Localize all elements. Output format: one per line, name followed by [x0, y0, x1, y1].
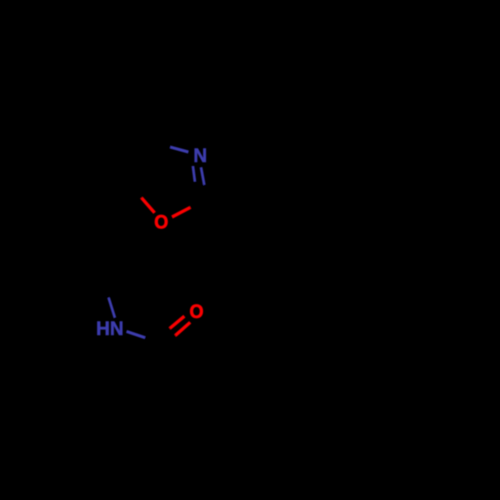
double bond C=O line A (red half near O)	[170, 316, 185, 328]
bond C-NH (black half near carbon)	[103, 279, 109, 298]
bond O1-C2 (black half near C2)	[190, 198, 208, 208]
double bond N3=C2 outer line (blue half)	[201, 167, 204, 185]
bond C4-N3 (black half near C4)	[152, 142, 170, 147]
double bond N3=C2 (black halves near C2)	[195, 182, 197, 194]
svg-text:HN: HN	[96, 319, 123, 340]
bond N-C(=O) (black half near carbonyl C)	[145, 338, 164, 344]
svg-text:O: O	[154, 212, 168, 233]
bond O1-C5 (red half near O1)	[142, 198, 155, 213]
svg-text:N: N	[193, 146, 207, 167]
svg-text:O: O	[190, 302, 204, 323]
bond O1-C2 (red half near O1)	[172, 207, 190, 217]
bond C2-C(aryl) substituent (black, invisible)	[209, 198, 253, 212]
bond C-NH (blue half near amide N)	[109, 298, 115, 318]
double bond C=O line B (red half near O)	[175, 322, 190, 335]
double bond C=O (black halves near carbonyl C)	[158, 328, 170, 338]
bond O1-C5 (black half near C5)	[128, 183, 141, 198]
bond C5-C4 (black, invisible)	[128, 139, 141, 183]
bond C4-N3 (blue half near N3)	[170, 147, 188, 152]
bond N-C(=O) (blue half near amide N)	[127, 331, 146, 337]
double bond N3=C2 inner line (blue half)	[193, 166, 195, 182]
